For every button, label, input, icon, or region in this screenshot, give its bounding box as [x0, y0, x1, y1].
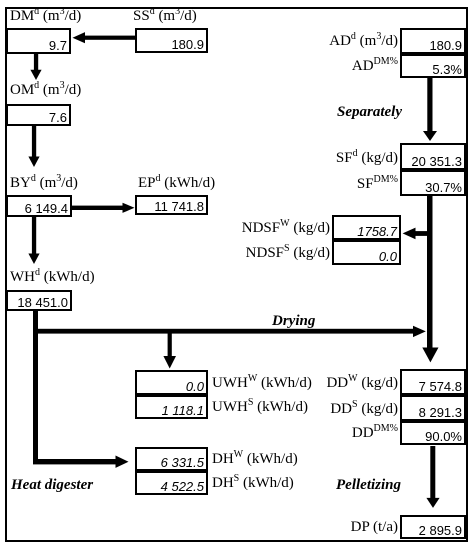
label OM [10, 83, 81, 98]
box UWH S value 1 118.1 [135, 395, 208, 419]
flow label Heat digester [11, 478, 93, 493]
box DH W value 6 331.5 [135, 447, 208, 471]
label AD DM% [300, 59, 398, 74]
arrow drying into SF line [413, 326, 426, 337]
box AD DM% value 5.3% [400, 54, 466, 78]
wire drying branch [33, 329, 413, 334]
label DD S [300, 402, 398, 417]
arrow into NDSF [403, 228, 427, 240]
box DD W value 7 574.8 [400, 369, 466, 395]
box NDSF W value 1758.7 [332, 215, 401, 240]
box SF d value 20 351.3 [400, 143, 466, 170]
box EP value 11 741.8 [135, 195, 208, 215]
label SF d [300, 151, 398, 166]
label NDSF S [232, 246, 330, 261]
box OM value 7.6 [6, 104, 71, 126]
arrow SF line into DD [422, 348, 438, 363]
arrow DD to DP [426, 446, 439, 508]
box NDSF S value 0.0 [332, 240, 401, 265]
arrow BY to EP [72, 203, 135, 213]
label UWH W [212, 376, 312, 391]
flow label Pelletizing [336, 478, 401, 493]
label SS [133, 9, 197, 24]
flow label Separately [337, 105, 402, 120]
wire WH down to elbow [33, 311, 38, 464]
box DM value 9.7 [6, 28, 71, 54]
arrow OM to BY [28, 126, 39, 167]
flow label Drying [272, 314, 315, 329]
wire SF down [427, 196, 433, 348]
label UWH S [212, 400, 308, 415]
arrow DM to OM [30, 54, 41, 80]
label BY [10, 176, 78, 191]
label WH [10, 270, 95, 285]
box WH value 18 451.0 [6, 290, 72, 311]
arrow SS to DM [73, 32, 137, 43]
label DP [300, 520, 398, 535]
arrow AD to SF [423, 78, 437, 141]
box AD d value 180.9 [400, 28, 466, 54]
box DH S value 4 522.5 [135, 471, 208, 495]
label AD d [300, 34, 398, 49]
box DD DM% value 90.0% [400, 421, 466, 445]
label SF DM% [300, 177, 398, 192]
label DD DM% [300, 426, 398, 441]
label EP [138, 176, 215, 191]
box DD S value 8 291.3 [400, 395, 466, 421]
arrow BY to WH [28, 217, 39, 264]
arrow elbow to DH [33, 456, 129, 468]
label DH S [212, 476, 294, 491]
box UWH W value 0.0 [135, 370, 208, 395]
box DP value 2 895.9 [400, 515, 466, 539]
box BY value 6 149.4 [6, 195, 72, 217]
box SF DM% value 30.7% [400, 170, 466, 196]
label DH W [212, 452, 298, 467]
arrow branch down to UWH [163, 331, 176, 369]
label DM [10, 9, 81, 24]
label DD W [300, 376, 398, 391]
label NDSF W [232, 221, 330, 236]
box SS value 180.9 [135, 28, 208, 53]
